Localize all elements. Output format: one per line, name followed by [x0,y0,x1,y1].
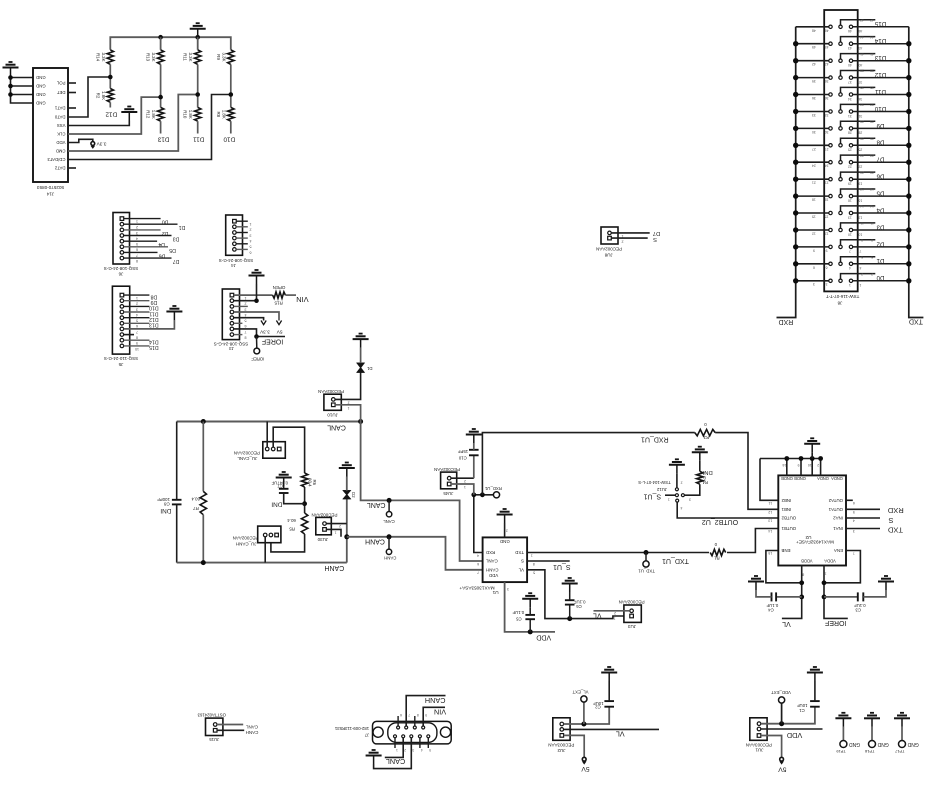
svg-text:2: 2 [404,748,406,752]
wire D7 right pin 22 [853,161,909,163]
supply 5V [780,757,784,761]
svg-text:CLK: CLK [57,132,65,137]
svg-text:GND: GND [36,101,46,106]
wire [326,529,341,536]
svg-text:JU8: JU8 [604,252,612,257]
wire [234,305,248,307]
svg-text:PEC002AAN: PEC002AAN [233,536,259,541]
junction [195,92,200,97]
svg-text:27: 27 [825,147,829,151]
svg-text:8: 8 [533,562,535,566]
svg-text:J7: J7 [364,733,369,738]
svg-text:41: 41 [860,52,864,56]
svg-text:R7: R7 [193,506,199,511]
svg-text:2: 2 [817,463,819,467]
svg-text:44: 44 [870,35,874,39]
resistor R10 1.8K [195,107,201,121]
wire bus [110,37,231,50]
junction [158,95,163,100]
svg-text:IOREF: IOREF [825,619,846,626]
wire [160,121,162,133]
svg-text:30: 30 [825,130,829,134]
svg-text:D7: D7 [653,230,660,236]
wire DB9 stubs bottom [394,738,396,748]
wire D0 left pin 3 [796,280,829,282]
svg-text:VDD_EXT: VDD_EXT [771,690,791,695]
wire ENA-VDDA [824,551,860,583]
wire D2 right pin 7 [853,246,909,248]
svg-text:CANH: CANH [324,564,344,571]
wire D9 right pin 28 [853,127,909,129]
ground [121,107,137,121]
svg-text:R6: R6 [312,479,317,485]
svg-text:C1: C1 [799,708,805,713]
wire VL [527,570,630,619]
wire [197,121,199,133]
wire VIN [234,294,273,296]
svg-text:DAT2: DAT2 [54,166,65,171]
svg-text:TP18: TP18 [865,749,874,754]
svg-text:11: 11 [768,501,772,505]
svg-text:CMD: CMD [56,149,66,154]
svg-text:PEC002AAN: PEC002AAN [318,389,344,394]
svg-text:6: 6 [250,250,252,254]
svg-text:21: 21 [825,181,829,185]
svg-text:VDDB: VDDB [801,558,813,563]
jumper JU8 [601,227,618,244]
svg-text:C2: C2 [595,705,601,710]
jumper JU3 PEC002AAN [624,605,641,622]
capacitor C4 0.1UF [776,596,802,598]
svg-text:8: 8 [136,259,138,263]
wire D2 left pin 9 [796,246,829,248]
wire CANH to U1 [347,537,483,570]
jumper JU_CANH PEC002AAN [258,526,281,543]
wire D5 right pin 16 [853,195,909,197]
svg-text:GND: GND [36,92,46,97]
wire CANL [217,724,243,726]
svg-text:1: 1 [250,222,252,226]
wire VDD [505,582,555,632]
svg-text:3.3K: 3.3K [188,52,193,61]
op-amp U1 MAX13053ASA+ [483,537,527,582]
svg-text:1: 1 [136,296,138,300]
svg-text:0.1UF: 0.1UF [766,603,778,608]
svg-text:6: 6 [826,265,828,269]
isolator U2 MAX14932FASE+ [778,475,846,565]
wire right rail [909,27,924,318]
connector J4 [226,215,243,255]
wire D4 left pin 15 [796,212,829,214]
svg-text:D10: D10 [223,136,235,143]
svg-text:7: 7 [853,551,855,555]
wire VIN DB9 pin9 [423,707,445,726]
wire [285,294,296,296]
wire TXD [846,528,880,530]
svg-text:4: 4 [477,553,479,557]
svg-text:GNDB: GNDB [794,476,806,481]
svg-text:10: 10 [858,232,862,236]
wire DAT0 [68,77,110,117]
svg-text:R4: R4 [702,480,708,485]
svg-text:C7: C7 [277,484,283,489]
svg-text:47: 47 [870,18,874,22]
resistor R12 1.8K [157,107,163,121]
svg-text:32: 32 [860,103,864,107]
svg-text:30: 30 [812,130,816,134]
svg-text:4: 4 [859,266,861,270]
junction [528,629,533,634]
svg-text:9: 9 [136,341,138,345]
svg-text:GNDA: GNDA [817,476,829,481]
svg-text:28: 28 [848,131,852,135]
svg-text:OUTA2: OUTA2 [828,498,843,503]
junction [158,35,163,40]
connector J3 [222,289,239,340]
connector JU12 TSW-104-07-L-S [675,488,678,491]
svg-text:18: 18 [825,198,829,202]
svg-text:GND: GND [907,741,919,747]
svg-text:5: 5 [861,255,863,259]
svg-text:15: 15 [812,215,816,219]
svg-text:7: 7 [136,330,138,334]
svg-text:JU12: JU12 [656,487,667,492]
svg-text:2: 2 [506,529,508,533]
testpoint RXD_U1 [493,492,499,498]
svg-text:1.8K: 1.8K [151,110,156,119]
wire VDDA [824,566,848,619]
svg-text:100PF: 100PF [157,497,170,502]
svg-text:2: 2 [250,228,252,232]
svg-text:8: 8 [136,336,138,340]
testpoint CANH [388,537,390,549]
wire D15 left pin 48 [796,26,829,28]
capacitor C2 10UF [604,701,614,707]
wire D9 left pin 30 [796,127,829,129]
svg-text:DAT1: DAT1 [54,106,65,111]
svg-text:1: 1 [348,406,350,410]
wire VL [564,728,659,730]
capacitor C1 10UF [810,701,820,707]
svg-text:20: 20 [870,170,874,174]
wire [160,64,162,107]
svg-text:13: 13 [858,215,862,219]
svg-text:D14: D14 [149,339,159,345]
wire D7 left pin 24 [796,161,829,163]
svg-text:INB2: INB2 [781,498,791,503]
wire D1 mid pin 5 [841,257,876,262]
svg-text:3.3V: 3.3V [259,329,270,335]
svg-text:38: 38 [860,69,864,73]
svg-text:OPEN: OPEN [273,285,286,290]
svg-text:5: 5 [853,510,855,514]
supply 5V [582,757,586,761]
jumper JU30 PEC002AAN [316,517,332,534]
svg-text:4: 4 [680,506,682,510]
svg-text:43: 43 [848,46,852,50]
svg-text:DNI: DNI [160,507,171,514]
resistor R6 60.4 [301,473,307,487]
svg-text:10: 10 [848,232,852,236]
svg-text:31: 31 [848,114,852,118]
svg-text:24: 24 [825,164,829,168]
svg-text:15PF: 15PF [457,449,468,454]
supply arrow 5V [276,321,281,325]
resistor R13 3.3K [160,37,162,50]
junction [387,498,392,503]
svg-text:RXD: RXD [887,506,903,515]
wire D10 left pin 33 [796,111,829,113]
svg-text:1: 1 [464,485,466,489]
wire [761,707,815,724]
svg-text:3: 3 [507,587,509,591]
svg-text:46: 46 [858,29,862,33]
svg-text:RXD_U1: RXD_U1 [641,436,669,443]
junction [201,560,206,565]
wire INB2 gnd [760,459,778,501]
svg-text:J14: J14 [46,192,54,197]
svg-text:6: 6 [853,501,855,505]
svg-text:OUTA1: OUTA1 [828,507,843,512]
wire RXD_U1 [474,495,494,553]
wire D13 mid pin 41 [841,54,876,59]
svg-text:D13: D13 [157,136,169,143]
wire D8 left pin 27 [796,144,829,146]
svg-text:0.1UF: 0.1UF [573,599,585,604]
connector J14 [33,68,68,182]
svg-text:7: 7 [245,330,247,334]
svg-text:44: 44 [860,35,864,39]
wire [234,322,243,324]
svg-text:8: 8 [417,713,419,717]
wire D10 mid pin 32 [841,104,876,109]
wire D11 right pin 34 [853,94,909,96]
svg-text:D9: D9 [150,299,157,305]
testpoint VL_EXT [583,702,585,724]
svg-text:2: 2 [681,480,683,484]
svg-text:29: 29 [860,120,864,124]
wire TXD_U1 [527,529,778,553]
svg-text:1: 1 [531,553,533,557]
svg-text:CANH: CANH [425,696,446,705]
svg-text:48: 48 [812,28,816,32]
svg-text:5V: 5V [581,765,590,772]
wire D14 left pin 45 [796,43,829,45]
svg-text:7: 7 [477,571,479,575]
ground [692,447,708,461]
svg-text:D1: D1 [366,366,372,371]
svg-text:13: 13 [768,519,772,523]
svg-text:4: 4 [853,519,855,523]
svg-text:6: 6 [245,324,247,328]
wire [811,452,813,458]
svg-text:DET: DET [57,90,66,95]
svg-text:1.8K: 1.8K [188,110,193,119]
junction [254,334,259,339]
svg-text:CD/DAT3: CD/DAT3 [47,157,66,162]
svg-text:11: 11 [870,221,874,225]
wire [451,477,474,479]
svg-text:18: 18 [812,198,816,202]
junction [201,419,206,424]
svg-text:2: 2 [136,225,138,229]
svg-text:SSQ-108-24-G-S: SSQ-108-24-G-S [219,258,254,263]
svg-text:J5: J5 [118,362,123,367]
junction [8,75,13,80]
svg-text:PEC002AAN: PEC002AAN [434,467,460,472]
svg-text:35: 35 [860,86,864,90]
wire [230,64,232,107]
svg-text:5V: 5V [778,766,787,773]
svg-text:S_U1: S_U1 [643,492,661,499]
junction [779,721,784,726]
junction [254,298,259,303]
svg-text:5: 5 [245,319,247,323]
svg-text:3.3K: 3.3K [101,52,106,61]
wire D12 right pin 37 [853,77,909,79]
junction [8,92,13,97]
svg-text:SSQ-108-24-G-S: SSQ-108-24-G-S [104,266,139,271]
ground [190,23,206,37]
svg-text:16: 16 [858,198,862,202]
svg-text:MAX13053ASA+: MAX13053ASA+ [459,586,495,591]
wire D4 mid pin 14 [841,206,876,211]
svg-text:D10: D10 [149,305,159,311]
svg-text:17: 17 [860,187,864,191]
junction [8,84,13,89]
ground [353,334,369,348]
svg-text:2: 2 [339,524,341,528]
svg-text:3: 3 [245,307,247,311]
svg-text:C6: C6 [576,604,582,609]
svg-text:CANL: CANL [386,757,405,766]
supply 3.3V [91,142,95,146]
svg-text:3: 3 [826,282,828,286]
svg-text:DNI: DNI [702,469,712,475]
svg-text:9: 9 [826,248,828,252]
svg-text:RXD_U1: RXD_U1 [484,486,502,491]
wire [304,487,306,513]
svg-text:VL: VL [593,612,602,619]
wire CANL to U1 [361,422,483,562]
svg-text:4: 4 [421,748,423,752]
svg-text:R14: R14 [95,53,100,62]
svg-text:12: 12 [812,232,816,236]
svg-text:36: 36 [812,96,816,100]
svg-text:24: 24 [812,164,816,168]
svg-text:33: 33 [812,113,816,117]
svg-text:JU3: JU3 [628,624,636,629]
svg-text:22: 22 [848,165,852,169]
svg-text:TXD_U1: TXD_U1 [662,557,689,564]
svg-text:C5: C5 [516,616,522,621]
wire CANH [217,729,244,731]
wire D2 mid pin 8 [841,240,876,245]
svg-text:3: 3 [250,233,252,237]
svg-text:C4: C4 [768,608,774,613]
svg-text:1: 1 [136,220,138,224]
svg-text:37: 37 [858,80,862,84]
svg-text:JU15: JU15 [209,737,220,742]
junction [387,534,392,539]
wire D3 left pin 12 [796,229,829,231]
resistor R15 OPEN [273,292,286,298]
wire DB9 stubs top [397,716,399,726]
svg-text:R1: R1 [714,556,720,561]
ground [669,459,685,473]
svg-text:CANH: CANH [365,537,385,544]
diode D1 TVS [335,372,361,399]
wire CD/DAT3 [68,95,231,160]
svg-text:8: 8 [861,238,863,242]
svg-text:R9: R9 [216,54,221,60]
svg-text:7: 7 [136,253,138,257]
svg-text:33: 33 [825,113,829,117]
svg-text:14: 14 [768,529,772,533]
svg-text:28: 28 [858,131,862,135]
ground [166,306,182,320]
wire [11,85,34,87]
svg-text:3: 3 [689,498,691,502]
wire D0 right pin 1 [853,280,909,282]
wire CANH DB9 pin7 [406,696,445,726]
svg-text:ENB: ENB [781,548,790,553]
svg-text:2: 2 [464,479,466,483]
svg-text:5: 5 [136,242,138,246]
svg-text:J3: J3 [229,346,234,351]
jumper JU_CANL PEC002AAN [263,442,286,459]
svg-text:20: 20 [860,170,864,174]
svg-text:CANL: CANL [367,501,386,508]
svg-text:4: 4 [136,236,138,240]
svg-text:TXD: TXD [909,318,923,325]
svg-text:38: 38 [870,69,874,73]
connector J5 [112,286,129,354]
capacitor C3 0.1UF [824,596,858,598]
svg-text:JU1: JU1 [755,747,763,752]
svg-text:9: 9 [798,463,800,467]
wire D4 right pin 13 [853,212,909,214]
svg-text:VDD: VDD [536,634,551,641]
svg-text:J8: J8 [837,300,842,305]
resistor R1 0 [709,548,727,557]
svg-text:S_U1: S_U1 [553,563,571,570]
wire 5V pin4 [234,312,279,321]
svg-text:CANH: CANH [384,556,396,561]
svg-text:8: 8 [245,336,247,340]
svg-text:POL: POL [56,81,65,86]
wire ENB-VL [766,551,802,583]
wire [564,707,610,724]
wire CANH bottom rail [177,562,347,564]
wire gnd pin2 [234,284,257,301]
wire D1 right pin 4 [853,263,909,265]
svg-text:0.1UF: 0.1UF [854,603,866,608]
svg-text:3: 3 [412,748,414,752]
svg-text:1: 1 [245,296,247,300]
svg-text:VIN: VIN [296,295,309,304]
jumper JU45 PEC002AAN [441,472,457,489]
wire [109,102,111,107]
wire [264,537,266,563]
svg-text:3.3K: 3.3K [221,52,226,61]
svg-text:9: 9 [813,248,815,252]
svg-text:VDD: VDD [787,731,802,740]
svg-text:VL: VL [616,729,625,738]
svg-text:R15: R15 [274,301,283,306]
wire 5V [564,735,585,757]
svg-text:S: S [888,516,893,525]
